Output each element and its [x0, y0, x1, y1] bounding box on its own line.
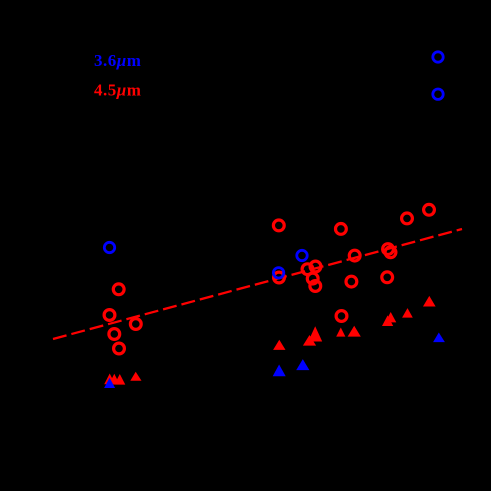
svg-text:4.5μm: 4.5μm [94, 80, 141, 99]
blue open circles [104, 52, 443, 278]
red open circles [104, 204, 434, 353]
red filled triangles [104, 296, 435, 385]
dashed fit line [53, 229, 462, 339]
blue filled triangles [104, 333, 445, 389]
svg-text:3.6μm: 3.6μm [94, 51, 141, 70]
